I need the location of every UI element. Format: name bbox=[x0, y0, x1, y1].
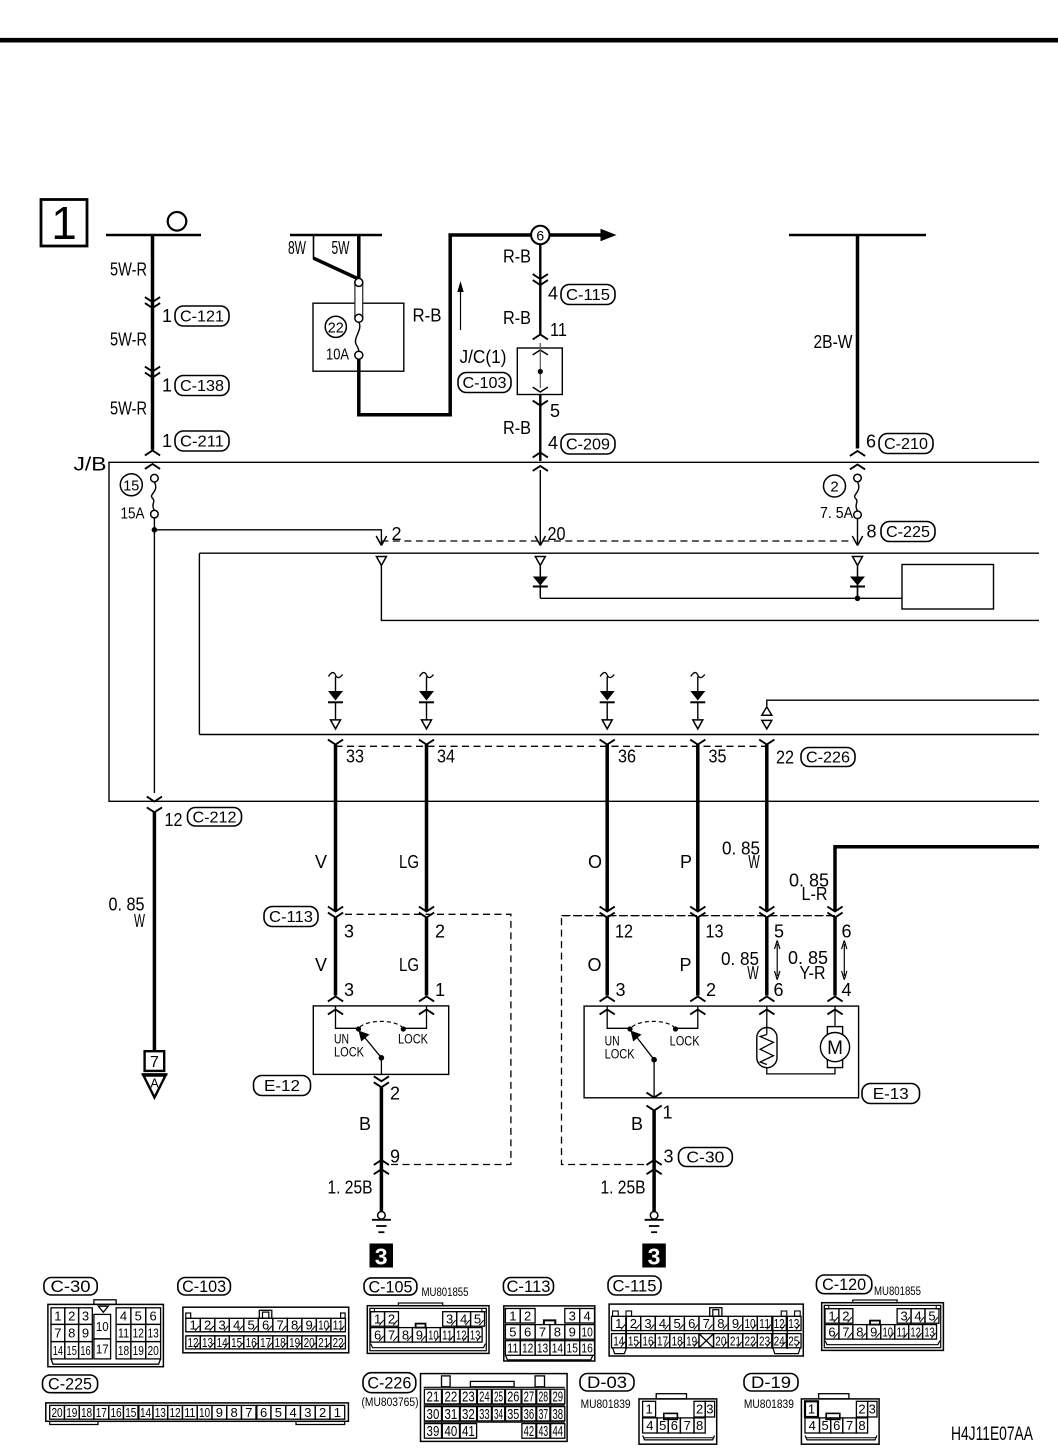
E-13 ground wire inside bbox=[653, 1060, 655, 1098]
door unlock sensor resistor bbox=[766, 1006, 768, 1034]
chevron into J/B at C-209 bbox=[533, 453, 548, 458]
svg-text:15: 15 bbox=[628, 1333, 639, 1348]
svg-text:C-211: C-211 bbox=[180, 434, 224, 451]
svg-text:34: 34 bbox=[437, 747, 455, 767]
svg-text:14: 14 bbox=[613, 1333, 624, 1348]
feed wire 0.85 L-R from right bbox=[835, 847, 1039, 911]
svg-text:14: 14 bbox=[217, 1335, 228, 1350]
arrow down terminal 8 bbox=[852, 536, 862, 546]
svg-text:42: 42 bbox=[524, 1424, 535, 1440]
connector C-113 chevrons LG bbox=[419, 907, 434, 912]
svg-text:2: 2 bbox=[696, 1402, 703, 1417]
svg-text:5: 5 bbox=[275, 1405, 282, 1420]
inner box left edge bbox=[198, 553, 200, 734]
connector C-226 pinout bbox=[421, 1374, 568, 1442]
wire 5W-R from bus A bbox=[151, 235, 155, 450]
svg-text:C-113: C-113 bbox=[269, 909, 313, 926]
svg-text:5: 5 bbox=[774, 922, 784, 942]
svg-text:V: V bbox=[315, 852, 327, 872]
svg-text:1: 1 bbox=[51, 197, 77, 249]
svg-text:27: 27 bbox=[524, 1390, 535, 1406]
connector symbol at C-115 bbox=[533, 274, 548, 279]
svg-text:8: 8 bbox=[230, 1405, 237, 1420]
connector C-115 pinout bbox=[609, 1304, 803, 1356]
svg-text:13: 13 bbox=[788, 1316, 799, 1331]
svg-text:13: 13 bbox=[470, 1327, 480, 1342]
chevron into J/B at C-210 bbox=[850, 451, 865, 456]
power bus A bbox=[106, 234, 201, 237]
svg-text:1: 1 bbox=[162, 431, 172, 451]
svg-text:6: 6 bbox=[150, 1309, 157, 1324]
svg-text:5: 5 bbox=[135, 1309, 142, 1324]
wire from diode 20 to relay bbox=[539, 585, 541, 598]
svg-text:7: 7 bbox=[150, 1054, 159, 1071]
svg-text:19: 19 bbox=[66, 1405, 77, 1420]
dashed harness top E-13 bbox=[562, 915, 836, 917]
svg-text:6: 6 bbox=[774, 980, 784, 1000]
svg-text:LOCK: LOCK bbox=[670, 1034, 700, 1049]
svg-text:7: 7 bbox=[684, 1418, 691, 1433]
connector D-03 label bbox=[580, 1374, 634, 1392]
wire R-B below junction 6 bbox=[539, 244, 541, 334]
svg-text:17: 17 bbox=[657, 1333, 668, 1348]
svg-text:7: 7 bbox=[846, 1418, 853, 1433]
connector chevron into J/B bbox=[145, 451, 160, 456]
svg-text:12: 12 bbox=[133, 1326, 144, 1341]
dashed harness box E-13 bbox=[562, 916, 836, 1165]
svg-text:18: 18 bbox=[81, 1405, 92, 1420]
svg-text:E-13: E-13 bbox=[873, 1086, 909, 1103]
svg-text:9: 9 bbox=[216, 1405, 223, 1420]
svg-text:11: 11 bbox=[507, 1341, 518, 1356]
svg-text:15: 15 bbox=[231, 1335, 242, 1350]
E-13 switch lever bbox=[636, 1036, 654, 1060]
svg-text:15A: 15A bbox=[121, 506, 145, 523]
crossover squiggle unlock-1 bbox=[329, 673, 343, 678]
svg-text:C-138: C-138 bbox=[180, 378, 224, 395]
diode unlock-2 bbox=[606, 677, 608, 693]
svg-text:9: 9 bbox=[82, 1326, 89, 1341]
label E-13 pill bbox=[862, 1084, 920, 1104]
svg-text:3: 3 bbox=[82, 1309, 89, 1324]
connector C-120 pinout bbox=[822, 1303, 944, 1351]
svg-text:32: 32 bbox=[462, 1407, 475, 1423]
svg-text:33: 33 bbox=[346, 747, 364, 767]
svg-text:R-B: R-B bbox=[503, 247, 531, 267]
relay coil box top line bbox=[199, 552, 1039, 554]
E-13 switch dashed arc bbox=[632, 1021, 674, 1027]
wire 20 from C-209 down bbox=[539, 470, 541, 544]
label C-113 pill bbox=[264, 907, 318, 927]
svg-text:C-115: C-115 bbox=[613, 1276, 657, 1295]
svg-text:8: 8 bbox=[554, 1324, 561, 1339]
ground point box 7 bbox=[145, 1051, 165, 1071]
J/B bottom exit chevrons 22 bbox=[759, 740, 774, 745]
svg-text:C-210: C-210 bbox=[884, 436, 928, 453]
svg-text:P: P bbox=[680, 852, 692, 872]
chevrons below E-12 bbox=[374, 1076, 389, 1081]
junction circle 6 bbox=[531, 226, 549, 244]
svg-text:4: 4 bbox=[289, 1405, 296, 1420]
svg-text:10: 10 bbox=[318, 1318, 329, 1333]
svg-text:8: 8 bbox=[858, 1418, 865, 1433]
door lock actuator E-13 box bbox=[584, 1006, 859, 1098]
svg-text:6: 6 bbox=[524, 1324, 531, 1339]
svg-text:3: 3 bbox=[664, 1147, 674, 1167]
svg-text:12: 12 bbox=[774, 1316, 785, 1331]
terminal triangle lock-2 bbox=[693, 720, 703, 729]
svg-text:1: 1 bbox=[162, 376, 172, 396]
svg-text:6: 6 bbox=[536, 228, 544, 244]
fuse number 15 circled bbox=[120, 474, 142, 496]
wire 12 exit chevrons bbox=[147, 797, 162, 802]
wire B to ground E-13 bbox=[652, 1111, 656, 1212]
fuse 15 bbox=[151, 474, 159, 482]
J/B bottom exit chevrons 36 bbox=[600, 740, 615, 745]
svg-text:C-30: C-30 bbox=[51, 1277, 91, 1296]
wire from fuse 15 down bbox=[153, 518, 155, 793]
wire from fuse to riser R-B bbox=[359, 236, 450, 415]
dashed link line bbox=[381, 540, 853, 542]
svg-text:5W: 5W bbox=[332, 238, 350, 258]
svg-text:C-113: C-113 bbox=[506, 1277, 550, 1296]
chevrons at C-30 bbox=[647, 1160, 662, 1165]
svg-text:1: 1 bbox=[509, 1308, 516, 1323]
wire 5W drop to fuse bbox=[357, 235, 361, 279]
svg-text:J/B: J/B bbox=[74, 455, 107, 476]
connector D-19 label bbox=[744, 1374, 798, 1392]
svg-text:3: 3 bbox=[869, 1402, 876, 1417]
ground symbol E-13 bbox=[650, 1212, 658, 1220]
svg-text:17: 17 bbox=[260, 1335, 271, 1350]
svg-text:C-212: C-212 bbox=[193, 809, 237, 826]
svg-text:4: 4 bbox=[548, 433, 558, 453]
motor-resistor link wire bbox=[767, 1068, 835, 1074]
connector C-103 label bbox=[178, 1278, 231, 1296]
wire O lower bbox=[605, 918, 609, 996]
svg-text:MU801839: MU801839 bbox=[744, 1399, 794, 1411]
svg-text:18: 18 bbox=[672, 1333, 683, 1348]
wire 0.85W from J/B 22 bbox=[765, 745, 769, 911]
svg-text:2: 2 bbox=[390, 1084, 400, 1104]
diode lock-2 bbox=[697, 677, 699, 693]
page ref 3 black box E-13 bbox=[642, 1244, 666, 1268]
top border line bbox=[0, 38, 1058, 43]
svg-text:11: 11 bbox=[333, 1318, 344, 1333]
connector C-113 pinout bbox=[504, 1306, 595, 1361]
ground symbol E-12 bbox=[378, 1212, 386, 1220]
wire 2B-W bbox=[856, 235, 860, 449]
svg-text:5W-R: 5W-R bbox=[110, 399, 147, 419]
svg-text:22: 22 bbox=[333, 1335, 344, 1350]
svg-text:19: 19 bbox=[289, 1335, 300, 1350]
connector symbol at C-121 bbox=[145, 297, 160, 302]
svg-text:19: 19 bbox=[133, 1343, 144, 1358]
arrowhead to next section bbox=[601, 229, 617, 241]
chevrons into E-12 bbox=[328, 997, 343, 1002]
svg-text:17: 17 bbox=[96, 1341, 109, 1356]
svg-text:P: P bbox=[679, 955, 691, 975]
fuse 2 bbox=[854, 474, 862, 482]
svg-text:16: 16 bbox=[642, 1333, 653, 1348]
junction dot bbox=[152, 527, 158, 533]
svg-text:L-R: L-R bbox=[802, 884, 828, 904]
svg-text:6: 6 bbox=[833, 1418, 840, 1433]
svg-text:4: 4 bbox=[583, 1308, 590, 1323]
svg-text:8: 8 bbox=[696, 1418, 703, 1433]
svg-text:14: 14 bbox=[53, 1343, 63, 1358]
svg-text:10: 10 bbox=[883, 1324, 893, 1339]
label C-103 pill bbox=[458, 373, 511, 393]
svg-text:1: 1 bbox=[162, 306, 172, 326]
svg-text:21: 21 bbox=[318, 1335, 329, 1350]
svg-text:11: 11 bbox=[759, 1316, 770, 1331]
junction block J/B outline bbox=[109, 462, 1039, 801]
svg-text:4: 4 bbox=[646, 1418, 653, 1433]
wire 0.85W to ground A bbox=[153, 812, 157, 1051]
svg-text:10: 10 bbox=[96, 1319, 109, 1334]
svg-text:12: 12 bbox=[169, 1405, 180, 1420]
svg-text:(MU803765): (MU803765) bbox=[362, 1397, 419, 1409]
svg-text:14: 14 bbox=[140, 1405, 151, 1420]
svg-text:H4J11E07AA: H4J11E07AA bbox=[951, 1424, 1033, 1445]
svg-text:MU801855: MU801855 bbox=[874, 1286, 921, 1298]
svg-text:15: 15 bbox=[67, 1343, 77, 1358]
connector D-03 pinout bbox=[639, 1399, 717, 1444]
junction connector J/C(1) C-103 box bbox=[517, 348, 562, 395]
svg-text:18: 18 bbox=[275, 1335, 286, 1350]
svg-text:1: 1 bbox=[663, 1103, 673, 1123]
E-13 switch wires bbox=[607, 1006, 628, 1028]
wire O from J/B 36 bbox=[605, 745, 609, 911]
diode at 8 bbox=[857, 566, 859, 596]
svg-text:36: 36 bbox=[524, 1407, 535, 1423]
E-12 switch dashed arc bbox=[360, 1021, 402, 1027]
svg-text:5: 5 bbox=[550, 401, 560, 421]
svg-text:3: 3 bbox=[648, 1243, 661, 1269]
connector C-113 label bbox=[503, 1278, 553, 1296]
wire 0.85W lower bbox=[765, 918, 769, 996]
connector C-120 label bbox=[816, 1275, 871, 1294]
connector C-105 label bbox=[364, 1278, 417, 1295]
diode lock-1 bbox=[426, 677, 428, 693]
section number box 1 bbox=[41, 200, 87, 247]
svg-text:3: 3 bbox=[569, 1308, 576, 1323]
svg-text:4: 4 bbox=[548, 284, 558, 304]
svg-text:1: 1 bbox=[54, 1309, 61, 1324]
svg-text:1: 1 bbox=[334, 1405, 341, 1420]
J/B bottom exit chevrons 33 bbox=[328, 740, 343, 745]
crossover squiggle lock-1 bbox=[420, 673, 434, 678]
svg-text:C-103: C-103 bbox=[463, 375, 507, 392]
svg-text:25: 25 bbox=[788, 1333, 799, 1348]
svg-text:5: 5 bbox=[659, 1418, 666, 1433]
svg-text:11: 11 bbox=[118, 1326, 129, 1341]
svg-text:2: 2 bbox=[830, 479, 838, 496]
svg-text:11: 11 bbox=[550, 320, 567, 340]
J/B bottom exit chevrons 34 bbox=[419, 740, 434, 745]
terminal triangle unlock-2 bbox=[602, 720, 612, 729]
svg-text:3: 3 bbox=[616, 980, 626, 1000]
E-12 switch lever bbox=[364, 1036, 382, 1058]
svg-text:R-B: R-B bbox=[503, 418, 531, 438]
svg-text:C-226: C-226 bbox=[806, 750, 850, 767]
svg-text:V: V bbox=[315, 955, 327, 975]
svg-text:10: 10 bbox=[581, 1324, 592, 1339]
dashed connector line C-226 bbox=[336, 745, 767, 747]
E-12 ground wire inside bbox=[380, 1058, 382, 1075]
svg-text:W: W bbox=[748, 852, 760, 872]
svg-text:D-03: D-03 bbox=[587, 1373, 627, 1392]
wire P lower bbox=[696, 918, 700, 996]
svg-text:O: O bbox=[588, 852, 602, 872]
svg-text:5: 5 bbox=[821, 1418, 828, 1433]
svg-text:15: 15 bbox=[125, 1405, 136, 1420]
svg-text:5: 5 bbox=[509, 1324, 516, 1339]
svg-text:28: 28 bbox=[538, 1390, 548, 1406]
svg-text:MU801839: MU801839 bbox=[581, 1399, 631, 1411]
svg-text:16: 16 bbox=[246, 1335, 257, 1350]
svg-text:35: 35 bbox=[709, 747, 727, 767]
chevron into J/C bbox=[533, 335, 548, 340]
crossover squiggle unlock-2 bbox=[600, 673, 614, 678]
svg-text:33: 33 bbox=[479, 1407, 490, 1423]
svg-text:31: 31 bbox=[445, 1407, 458, 1423]
chevrons at intermediate connector bbox=[600, 907, 615, 912]
svg-text:7. 5A: 7. 5A bbox=[820, 505, 853, 522]
svg-text:13: 13 bbox=[202, 1335, 213, 1350]
svg-text:8W: 8W bbox=[288, 238, 306, 258]
wire LG from J/B 34 bbox=[425, 745, 429, 911]
svg-text:1. 25B: 1. 25B bbox=[601, 1178, 646, 1198]
svg-text:6: 6 bbox=[866, 432, 876, 452]
svg-text:LOCK: LOCK bbox=[334, 1045, 364, 1060]
svg-text:37: 37 bbox=[538, 1407, 548, 1423]
svg-text:8: 8 bbox=[68, 1326, 75, 1341]
inner box bottom line bbox=[199, 734, 1039, 736]
arrow down terminal 2 bbox=[376, 536, 386, 546]
flow arrow up bbox=[460, 285, 462, 330]
power bus segment 8W/5W bbox=[290, 234, 382, 237]
svg-text:B: B bbox=[631, 1114, 643, 1134]
fusible link cartridge bbox=[355, 283, 363, 318]
svg-text:C-103: C-103 bbox=[182, 1277, 226, 1296]
svg-text:2: 2 bbox=[706, 980, 716, 1000]
wire V lower bbox=[334, 918, 338, 996]
svg-text:26: 26 bbox=[507, 1390, 519, 1406]
wire B to ground bbox=[380, 1087, 384, 1211]
svg-text:19: 19 bbox=[686, 1333, 697, 1348]
svg-text:C-105: C-105 bbox=[368, 1277, 412, 1296]
svg-text:22: 22 bbox=[445, 1390, 458, 1406]
svg-text:11: 11 bbox=[184, 1405, 195, 1420]
terminal triangle at 8 bbox=[853, 557, 863, 566]
svg-text:5W-R: 5W-R bbox=[110, 330, 147, 350]
chevrons at 9 bbox=[374, 1160, 389, 1165]
svg-text:2: 2 bbox=[319, 1405, 326, 1420]
svg-text:30: 30 bbox=[427, 1407, 440, 1423]
connector C-113 chevrons V bbox=[328, 907, 343, 912]
svg-text:E-12: E-12 bbox=[264, 1078, 300, 1095]
svg-text:4: 4 bbox=[809, 1418, 816, 1433]
arrow down terminal 20 bbox=[535, 536, 545, 546]
svg-text:13: 13 bbox=[155, 1405, 166, 1420]
svg-text:22: 22 bbox=[776, 748, 794, 768]
svg-text:12: 12 bbox=[165, 810, 183, 830]
svg-text:C-30: C-30 bbox=[686, 1150, 724, 1167]
svg-text:8: 8 bbox=[867, 522, 877, 542]
terminal triangle unlock-1 bbox=[331, 720, 341, 729]
svg-text:1: 1 bbox=[645, 1402, 652, 1417]
fuse number 2 circled bbox=[824, 475, 846, 497]
wire down from triangle 2 bbox=[381, 566, 1039, 621]
connector C-103 pinout bbox=[183, 1307, 349, 1353]
svg-text:O: O bbox=[587, 955, 601, 975]
svg-text:1: 1 bbox=[435, 980, 445, 1000]
svg-text:3: 3 bbox=[344, 922, 354, 942]
svg-text:20: 20 bbox=[715, 1333, 726, 1348]
svg-text:15: 15 bbox=[123, 477, 139, 494]
svg-text:38: 38 bbox=[552, 1407, 563, 1423]
svg-text:2B-W: 2B-W bbox=[814, 332, 853, 352]
crossover squiggle lock-2 bbox=[691, 673, 705, 678]
svg-text:16: 16 bbox=[110, 1405, 121, 1420]
svg-text:Y-R: Y-R bbox=[800, 963, 826, 983]
svg-text:J/C(1): J/C(1) bbox=[460, 347, 507, 367]
passthrough arrow 1 bbox=[776, 944, 778, 976]
connector D-19 pinout bbox=[801, 1399, 879, 1444]
svg-text:C-225: C-225 bbox=[886, 524, 930, 541]
svg-text:W: W bbox=[134, 911, 145, 931]
terminal triangles at 22 bbox=[762, 707, 772, 716]
svg-text:7: 7 bbox=[539, 1324, 546, 1339]
connector C-30 pinout bbox=[48, 1304, 163, 1366]
svg-text:2: 2 bbox=[435, 922, 445, 942]
fuse number 22 circled bbox=[325, 316, 346, 337]
svg-text:29: 29 bbox=[552, 1390, 563, 1406]
svg-text:7: 7 bbox=[245, 1405, 252, 1420]
passthrough arrow 2 bbox=[843, 944, 845, 976]
connector C-225 label bbox=[43, 1375, 98, 1393]
svg-text:B: B bbox=[359, 1114, 371, 1134]
svg-text:12: 12 bbox=[456, 1327, 466, 1342]
wire V from J/B 33 bbox=[334, 745, 338, 911]
wire P from J/B 35 bbox=[696, 745, 700, 911]
svg-text:W: W bbox=[747, 963, 759, 983]
dashed harness box E-12 bbox=[345, 914, 511, 1164]
svg-text:41: 41 bbox=[462, 1424, 475, 1440]
svg-text:C-209: C-209 bbox=[566, 437, 610, 454]
wire L-R lower bbox=[833, 918, 837, 996]
svg-text:6: 6 bbox=[671, 1418, 678, 1433]
fuse box 22 bbox=[313, 303, 404, 371]
svg-text:43: 43 bbox=[538, 1424, 548, 1440]
svg-text:C-115: C-115 bbox=[566, 287, 610, 304]
svg-text:39: 39 bbox=[427, 1424, 440, 1440]
connector C-30 label bbox=[44, 1278, 97, 1296]
svg-text:22: 22 bbox=[328, 320, 344, 337]
svg-text:5W-R: 5W-R bbox=[110, 260, 147, 280]
svg-text:34: 34 bbox=[494, 1407, 503, 1423]
svg-text:3: 3 bbox=[375, 1243, 388, 1269]
svg-text:MU801855: MU801855 bbox=[422, 1287, 469, 1299]
svg-text:R-B: R-B bbox=[413, 306, 442, 326]
diode at 20 bbox=[539, 566, 541, 596]
svg-text:40: 40 bbox=[445, 1424, 458, 1440]
svg-text:3: 3 bbox=[304, 1405, 311, 1420]
svg-text:10: 10 bbox=[428, 1327, 438, 1342]
svg-text:44: 44 bbox=[552, 1424, 563, 1440]
